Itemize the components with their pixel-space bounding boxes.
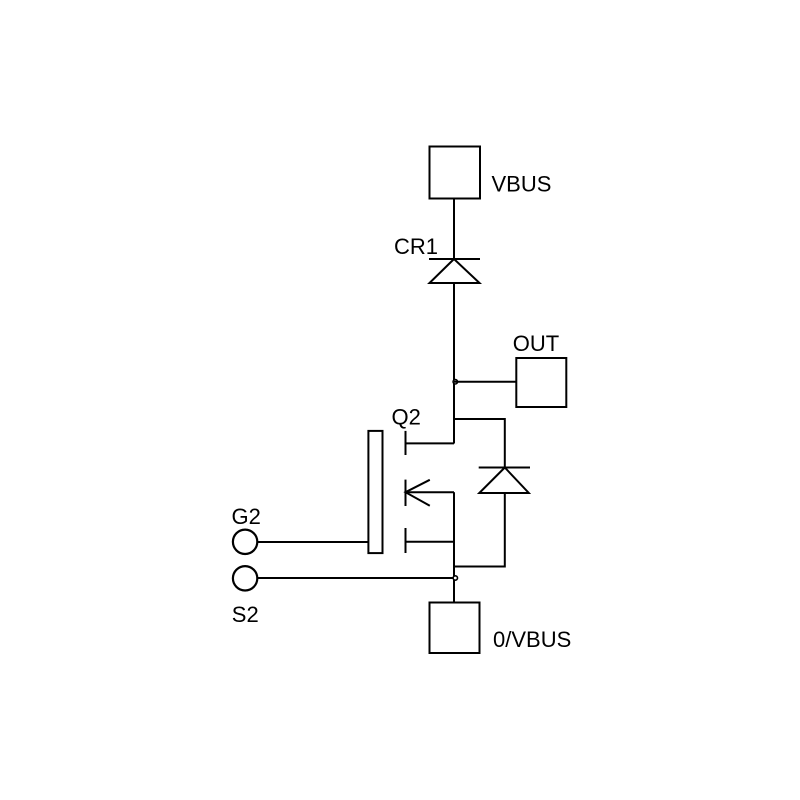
terminal box 0/VBUS	[430, 603, 480, 654]
wire source segment to main vertical	[406, 541, 455, 543]
terminal circle G2	[233, 530, 257, 554]
wire node to OUT box	[454, 381, 516, 383]
wire G2 to gate plate	[258, 541, 369, 543]
svg-text:G2: G2	[232, 504, 261, 529]
body arrow of Q2	[406, 480, 430, 506]
gate plate of Q2	[368, 431, 382, 553]
wire S2 to source node	[258, 577, 455, 579]
node OUT junction	[453, 380, 457, 384]
body diode of Q2	[479, 468, 530, 494]
svg-text:S2: S2	[232, 602, 259, 627]
wire drain segment to main vertical	[406, 442, 455, 444]
wire body diode anode back to source node	[454, 493, 505, 567]
body contact segment of Q2	[405, 480, 407, 506]
terminal box OUT	[516, 358, 566, 407]
svg-text:VBUS: VBUS	[492, 172, 552, 197]
svg-text:0/VBUS: 0/VBUS	[493, 627, 571, 652]
terminal box VBUS	[430, 147, 481, 199]
svg-text:Q2: Q2	[392, 405, 421, 430]
svg-text:OUT: OUT	[513, 331, 559, 356]
wire CR1 anode down to drain (through OUT node and diode branch corner)	[453, 283, 455, 444]
svg-text:CR1: CR1	[394, 234, 438, 259]
wire body to main vertical	[406, 491, 455, 493]
node S2 junction	[453, 576, 457, 580]
source contact segment of Q2	[405, 528, 407, 553]
wire drain branch to body diode (top)	[454, 419, 505, 468]
drain contact segment of Q2	[405, 431, 407, 455]
wire VBUS box to CR1 cathode	[453, 199, 455, 260]
wire main vertical from body down to 0/VBUS box	[453, 492, 455, 602]
diode CR1	[429, 259, 480, 283]
terminal circle S2	[233, 566, 257, 590]
